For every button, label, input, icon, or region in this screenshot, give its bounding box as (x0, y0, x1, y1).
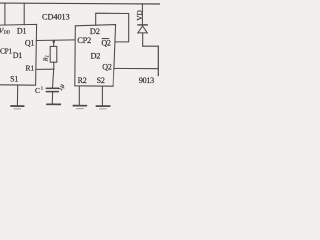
svg-text:9013: 9013 (139, 76, 154, 85)
svg-text:Q2: Q2 (102, 63, 112, 72)
svg-text:R2: R2 (78, 76, 87, 85)
svg-text:CD4013: CD4013 (42, 12, 70, 21)
svg-text:Q2: Q2 (101, 38, 111, 47)
svg-text:S1: S1 (10, 75, 18, 84)
svg-text:D2: D2 (90, 26, 100, 36)
svg-text:VD: VD (135, 9, 144, 20)
svg-text:D2: D2 (91, 52, 101, 61)
svg-text:C: C (35, 86, 40, 95)
svg-text:Q1: Q1 (25, 38, 35, 47)
svg-text:CP2: CP2 (77, 36, 91, 45)
svg-text:S2: S2 (97, 76, 105, 85)
svg-text:D1: D1 (13, 51, 23, 60)
svg-text:CP1: CP1 (0, 47, 12, 56)
svg-text:D1: D1 (17, 27, 27, 36)
svg-text:DD: DD (4, 30, 10, 35)
svg-text:R1: R1 (26, 64, 35, 73)
